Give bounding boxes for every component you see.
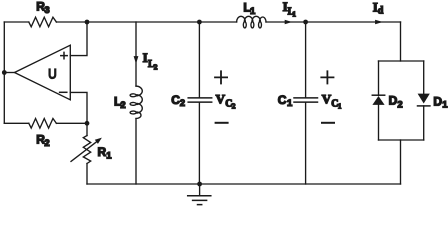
svg-text:1: 1 — [442, 100, 448, 111]
wire top rail left segment — [4, 21, 29, 23]
svg-text:1: 1 — [106, 151, 112, 162]
capacitor C2 — [188, 98, 212, 102]
diode D2 — [372, 61, 384, 140]
svg-text:I: I — [143, 50, 148, 65]
wire top rail middle segment — [56, 21, 236, 23]
svg-text:3: 3 — [44, 5, 49, 16]
svg-text:1: 1 — [250, 6, 256, 17]
minus sign of V_C1 — [322, 122, 334, 124]
minus sign of V_C2 — [216, 122, 228, 124]
svg-text:2: 2 — [397, 99, 402, 110]
ground — [188, 184, 211, 205]
wire left rail — [3, 22, 5, 123]
wire diode branch input — [400, 22, 402, 61]
svg-text:D: D — [389, 94, 398, 108]
current arrow I_L2 — [134, 56, 139, 64]
wire R2 right lead — [56, 122, 87, 124]
resistor R3 — [29, 17, 57, 27]
current arrow I_L1 — [285, 20, 292, 25]
wire op-amp minus input down to R2 node — [70, 92, 87, 123]
wire C1 bottom lead — [305, 103, 307, 184]
wire R1 top lead — [86, 123, 88, 135]
svg-text:1: 1 — [292, 9, 296, 18]
node C2 top — [197, 20, 202, 25]
wire C1 top lead — [305, 22, 307, 97]
capacitor C1 — [294, 98, 318, 102]
inductor L1 — [237, 16, 266, 28]
svg-text:C: C — [278, 93, 287, 107]
op-amp minus input marker — [60, 91, 67, 93]
plus sign of V_C1 — [321, 71, 333, 83]
wire diode pair top rail — [379, 60, 424, 62]
svg-text:2: 2 — [120, 100, 125, 111]
arrow of variable resistor R1 — [71, 138, 102, 162]
wire diode branch output — [400, 140, 402, 184]
svg-text:d: d — [378, 5, 384, 16]
wire L2 bottom lead — [135, 119, 137, 185]
wire C2 bottom lead — [198, 103, 200, 184]
op-amp U — [15, 45, 71, 100]
node op-amp output tap — [2, 70, 7, 75]
svg-text:2: 2 — [44, 138, 49, 149]
svg-text:D: D — [433, 94, 442, 108]
inductor L2 — [130, 86, 142, 118]
wire R2 left lead — [4, 122, 29, 124]
current arrow I_d — [375, 20, 383, 25]
wire C2 top lead — [198, 22, 200, 97]
plus sign of V_C2 — [215, 71, 227, 83]
wire R1 bottom lead — [86, 164, 88, 185]
svg-text:2: 2 — [180, 98, 185, 109]
wire op-amp plus input to top node — [70, 22, 87, 56]
wire op-amp output stub — [4, 72, 14, 74]
svg-text:R: R — [98, 145, 107, 159]
op-amp plus input marker — [61, 52, 67, 58]
svg-text:U: U — [48, 66, 57, 82]
node top rail feedback junction — [85, 20, 90, 25]
node R2 / R1 junction — [85, 121, 90, 126]
wire L2 top lead — [135, 22, 137, 86]
svg-text:1: 1 — [338, 102, 342, 111]
resistor R1 (variable) — [83, 136, 90, 164]
svg-text:2: 2 — [154, 63, 158, 72]
resistor R2 — [29, 119, 57, 129]
svg-text:1: 1 — [287, 98, 293, 109]
diode D1 — [418, 61, 430, 140]
svg-text:V: V — [216, 92, 226, 107]
wire diode pair bottom rail — [379, 139, 424, 141]
wire top rail right segment — [266, 21, 401, 23]
svg-text:2: 2 — [232, 102, 236, 111]
node C1 top — [303, 20, 308, 25]
node ground junction — [197, 182, 202, 187]
wire bottom rail — [87, 183, 401, 185]
